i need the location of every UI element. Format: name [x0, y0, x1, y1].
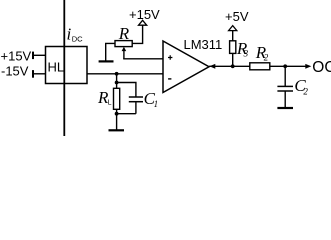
ground (R_L / C1) — [109, 129, 125, 131]
op-amp - marking — [168, 78, 171, 80]
svg-text:+15V: +15V — [129, 7, 160, 22]
wire C1 bottom lead — [135, 102, 137, 114]
ground (pot left) — [99, 60, 114, 62]
wire C2 bottom lead — [284, 92, 286, 108]
svg-text:i: i — [67, 25, 72, 44]
capacitor C2 top plate — [277, 85, 293, 87]
arrowhead into op-amp output — [209, 64, 215, 69]
svg-text:HL: HL — [48, 59, 65, 74]
Hall sensor HL box — [46, 47, 88, 84]
wire wiper to non-inverting input — [123, 58, 163, 60]
svg-text:+5V: +5V — [225, 9, 249, 24]
wire: main measured conductor (vertical, carries i_DC) — [63, 0, 65, 136]
svg-text:2: 2 — [303, 87, 308, 97]
output arrowhead — [305, 64, 311, 69]
svg-text:-15V: -15V — [1, 63, 29, 78]
node: junction R_L / C1 bottom — [115, 112, 119, 116]
wire C2 top lead — [284, 66, 286, 86]
wire R3 to output node — [232, 53, 234, 66]
terminal -15V bar — [32, 70, 34, 78]
wire pot right terminal up to +15V — [132, 25, 142, 43]
svg-text:DC: DC — [72, 34, 83, 43]
svg-text:3: 3 — [243, 49, 249, 59]
node: junction on inverting wire above R_L — [115, 72, 119, 76]
svg-text:+15V: +15V — [1, 48, 32, 63]
node: junction R3 / output — [231, 64, 235, 68]
wire junction down to R_L — [116, 74, 118, 89]
capacitor C2 bottom plate — [277, 90, 293, 92]
op-amp + marking — [168, 55, 172, 59]
resistor R2 — [250, 63, 270, 70]
wire HL output to op-amp inverting input — [87, 73, 163, 75]
wire -15V to HL — [33, 73, 46, 75]
wire R2 to OC arrow — [270, 65, 307, 67]
svg-text:OC: OC — [312, 59, 331, 76]
svg-text:L: L — [108, 100, 112, 107]
wire pot left terminal — [106, 43, 115, 60]
op-amp U1 LM311 — [163, 41, 209, 93]
resistor R_L — [114, 88, 120, 109]
wire +5V to R3 — [232, 31, 234, 41]
node: junction to C1 branch — [115, 81, 119, 85]
wire C1 top branch — [117, 83, 136, 97]
wire R_L bottom — [116, 109, 118, 130]
potentiometer wiper arrow — [122, 47, 127, 51]
terminal +15V bar — [32, 52, 34, 60]
ground (C2) — [277, 107, 293, 109]
power +5V triangle — [229, 26, 237, 31]
svg-text:2: 2 — [264, 53, 269, 63]
potentiometer R body — [115, 41, 132, 47]
wire op-amp output — [209, 65, 250, 67]
wire +15V to HL — [33, 54, 46, 56]
svg-text:LM311: LM311 — [184, 37, 223, 52]
svg-text:R: R — [118, 24, 130, 43]
svg-text:1: 1 — [154, 99, 159, 109]
capacitor C1 top plate — [129, 96, 143, 98]
capacitor C1 bottom plate — [129, 101, 143, 103]
power +15V triangle — [139, 20, 147, 25]
wire wiper stem — [123, 51, 125, 59]
node: junction C2 branch — [283, 64, 287, 68]
resistor R3 — [230, 41, 236, 54]
wire C1 bottom to junction — [117, 113, 136, 115]
